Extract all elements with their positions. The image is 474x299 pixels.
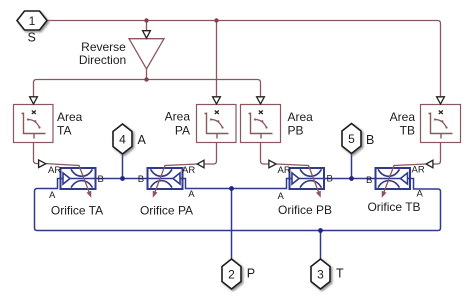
svg-text:B: B xyxy=(366,133,374,147)
port 2 P xyxy=(222,259,241,289)
node S-gain junction xyxy=(144,18,148,22)
arrow into Area PB xyxy=(257,97,265,104)
gain Reverse Direction triangle xyxy=(129,39,164,69)
wire Area PA output xyxy=(204,143,217,165)
svg-text:2: 2 xyxy=(228,267,235,281)
arrow into orifice TB AR xyxy=(426,160,433,168)
arrow into orifice PB AR xyxy=(269,160,276,168)
orifice TB control arrow xyxy=(383,164,426,194)
wire S main line xyxy=(47,21,441,97)
port 4 A xyxy=(113,124,132,154)
port 3 T xyxy=(311,259,330,289)
svg-text:Orifice PB: Orifice PB xyxy=(278,203,332,217)
arrow into orifice TA AR xyxy=(39,160,46,168)
svg-text:Orifice TA: Orifice TA xyxy=(51,204,103,218)
svg-text:Reverse: Reverse xyxy=(81,40,126,54)
svg-text:P: P xyxy=(247,267,255,281)
wire port3 T riser xyxy=(320,231,322,260)
port 5 B xyxy=(342,124,361,154)
orifice TA control arrow xyxy=(46,164,90,194)
wire P bus PA.A to PB.A xyxy=(182,179,290,189)
svg-text:AR: AR xyxy=(182,165,195,176)
svg-text:T: T xyxy=(336,267,344,281)
wire port2 P riser xyxy=(231,189,233,260)
block Area TA xyxy=(14,105,54,143)
svg-text:A: A xyxy=(188,189,195,200)
svg-text:Area: Area xyxy=(57,110,83,124)
svg-text:TA: TA xyxy=(57,123,71,137)
block Area PB xyxy=(241,105,281,143)
node B junction (port 5) xyxy=(349,176,354,181)
wire PB.B to TB.B xyxy=(324,178,376,180)
svg-text:PA: PA xyxy=(175,123,190,137)
orifice PB control arrow xyxy=(276,164,319,194)
arrow into gain xyxy=(143,31,151,39)
block Area PA xyxy=(197,105,237,143)
orifice TA block xyxy=(61,168,96,189)
wire reversed bus xyxy=(34,80,261,97)
wire branch to gain xyxy=(146,21,148,31)
node T junction (port 3) xyxy=(318,228,323,233)
wire Area TA output xyxy=(34,143,39,164)
svg-text:Area: Area xyxy=(390,110,416,124)
svg-text:S: S xyxy=(28,31,36,45)
svg-text:B: B xyxy=(366,175,372,186)
orifice PA block (mirrored) xyxy=(148,168,183,189)
svg-text:TB: TB xyxy=(400,123,415,137)
arrow into Area TB xyxy=(437,97,445,104)
svg-text:AR: AR xyxy=(48,165,61,176)
port 1 S xyxy=(17,11,47,30)
node P junction (port 2) xyxy=(229,186,234,191)
node B-A junction (port 4) xyxy=(120,176,125,181)
wire port4 A to junction xyxy=(122,154,124,179)
svg-text:A: A xyxy=(138,133,147,147)
node gain output junction xyxy=(144,77,148,81)
svg-text:PB: PB xyxy=(288,123,304,137)
svg-text:B: B xyxy=(98,174,104,185)
wire Area TB output xyxy=(433,143,441,165)
svg-text:5: 5 xyxy=(348,132,355,146)
wire S to Area PA xyxy=(216,21,218,97)
orifice TB block (mirrored) xyxy=(376,168,411,189)
wire T bus TA.A to TB.A xyxy=(35,179,441,231)
arrow into Area TA xyxy=(30,97,38,104)
svg-text:AR: AR xyxy=(278,165,291,176)
svg-text:4: 4 xyxy=(119,132,126,146)
block Area TB xyxy=(421,105,461,143)
svg-text:A: A xyxy=(278,191,285,202)
svg-text:Direction: Direction xyxy=(79,53,126,67)
orifice PB block xyxy=(290,168,325,189)
svg-text:A: A xyxy=(49,190,56,201)
svg-text:AR: AR xyxy=(412,165,425,176)
svg-text:B: B xyxy=(138,174,144,185)
svg-text:A: A xyxy=(417,189,424,200)
node S-PA junction xyxy=(214,18,218,22)
svg-text:1: 1 xyxy=(29,14,36,28)
svg-text:Orifice TB: Orifice TB xyxy=(367,200,420,214)
svg-text:Orifice PA: Orifice PA xyxy=(140,204,193,218)
svg-text:Area: Area xyxy=(165,110,191,124)
arrow into orifice PA AR xyxy=(197,160,204,168)
svg-text:B: B xyxy=(327,174,333,185)
orifice PA control arrow xyxy=(154,164,197,194)
arrow into Area PA xyxy=(213,97,221,104)
svg-text:3: 3 xyxy=(317,267,324,281)
wire gain output xyxy=(146,69,148,80)
wire port5 B to junction xyxy=(351,154,353,179)
wire TA.B to PA.B xyxy=(96,178,148,180)
svg-text:Area: Area xyxy=(288,110,314,124)
wire Area PB output xyxy=(261,143,269,165)
